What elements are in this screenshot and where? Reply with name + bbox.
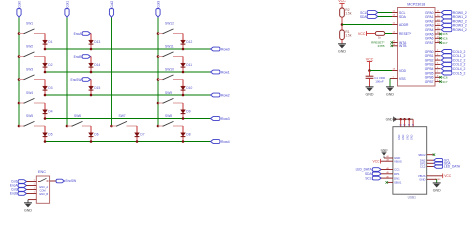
svg-text:GND: GND — [402, 134, 405, 140]
svg-text:SW9: SW9 — [165, 91, 172, 95]
svg-text:D5: D5 — [48, 133, 52, 137]
svg-text:COM: COM — [40, 189, 46, 193]
svg-text:D10: D10 — [186, 86, 192, 90]
svg-text:SW11: SW11 — [165, 44, 174, 48]
svg-text:SW12: SW12 — [165, 21, 174, 25]
svg-text:ADDR: ADDR — [399, 23, 409, 27]
svg-text:RESET*: RESET* — [399, 32, 412, 36]
svg-text:Col1: Col1 — [65, 1, 69, 8]
svg-text:D11: D11 — [186, 63, 192, 67]
svg-text:SDA: SDA — [399, 15, 407, 19]
svg-text:Col2: Col2 — [110, 1, 114, 8]
svg-text:ENC_A: ENC_A — [40, 185, 49, 189]
svg-text:SBU2: SBU2 — [418, 153, 426, 157]
svg-text:Row1: Row1 — [221, 70, 230, 74]
svg-text:Col3: Col3 — [156, 1, 160, 8]
svg-text:SBU1: SBU1 — [394, 181, 402, 185]
svg-text:INTB: INTB — [399, 44, 407, 48]
svg-text:LED_DATA: LED_DATA — [444, 165, 461, 169]
svg-text:1.5k: 1.5k — [345, 12, 351, 16]
svg-text:B1: B1 — [400, 125, 402, 127]
svg-text:COL5_2: COL5_2 — [453, 71, 466, 75]
svg-text:CC2: CC2 — [420, 165, 426, 169]
svg-text:GND: GND — [386, 117, 394, 121]
svg-text:NC7: NC7 — [442, 80, 448, 84]
svg-text:Row4: Row4 — [221, 140, 230, 144]
svg-text:VCC: VCC — [366, 57, 374, 61]
svg-text:D8: D8 — [186, 133, 190, 137]
svg-text:D3: D3 — [48, 86, 52, 90]
svg-text:D15: D15 — [94, 86, 100, 90]
svg-text:MCP23018: MCP23018 — [407, 3, 425, 7]
svg-text:Row0: Row0 — [221, 47, 230, 51]
svg-text:1.5k: 1.5k — [345, 34, 351, 38]
svg-text:SW3: SW3 — [26, 67, 33, 71]
svg-text:SW2: SW2 — [26, 44, 33, 48]
svg-text:EncB: EncB — [10, 192, 18, 196]
svg-text:A5: A5 — [387, 171, 389, 174]
svg-text:SW1: SW1 — [26, 21, 33, 25]
svg-text:A5: A5 — [387, 176, 389, 179]
svg-text:ENC_B: ENC_B — [40, 192, 49, 196]
svg-text:GND: GND — [433, 189, 441, 193]
svg-text:EncSW: EncSW — [71, 78, 83, 82]
svg-text:D2: D2 — [48, 63, 52, 67]
svg-text:A1: A1 — [387, 155, 389, 158]
svg-text:Row3: Row3 — [221, 117, 230, 121]
svg-text:GND: GND — [398, 134, 401, 140]
svg-text:SCL: SCL — [365, 176, 371, 180]
svg-text:A4: A4 — [387, 158, 389, 161]
svg-text:SW6: SW6 — [74, 114, 81, 118]
svg-text:ROW4_2: ROW4_2 — [453, 28, 467, 32]
svg-text:GND: GND — [386, 92, 394, 96]
svg-text:GND: GND — [338, 49, 346, 53]
svg-text:D1: D1 — [48, 40, 52, 44]
svg-text:D7: D7 — [140, 133, 144, 137]
svg-text:SW8: SW8 — [165, 114, 172, 118]
svg-text:SW5: SW5 — [26, 114, 33, 118]
svg-text:D14: D14 — [94, 63, 100, 67]
svg-text:GND: GND — [381, 148, 389, 152]
svg-text:GPA7: GPA7 — [425, 41, 434, 45]
svg-text:D13: D13 — [94, 40, 100, 44]
svg-text:D12: D12 — [186, 40, 192, 44]
svg-text:GND: GND — [366, 92, 374, 96]
svg-text:D9: D9 — [186, 110, 190, 114]
svg-text:SDA: SDA — [360, 15, 368, 19]
svg-text:INTB: INTB — [378, 44, 385, 48]
svg-text:A5: A5 — [387, 167, 389, 170]
svg-text:USB1: USB1 — [408, 196, 417, 200]
svg-text:B1: B1 — [412, 125, 414, 127]
svg-text:GPB7: GPB7 — [425, 80, 434, 84]
svg-text:SW4: SW4 — [26, 91, 33, 95]
svg-text:SW7: SW7 — [119, 114, 126, 118]
svg-text:VCC: VCC — [358, 32, 366, 36]
svg-text:SW10: SW10 — [165, 67, 174, 71]
svg-text:VCC: VCC — [338, 0, 346, 3]
svg-text:EncSW: EncSW — [66, 179, 77, 183]
svg-text:GND: GND — [419, 177, 425, 181]
svg-text:VSS: VSS — [399, 77, 406, 81]
svg-text:GND: GND — [24, 208, 32, 212]
svg-text:VCC: VCC — [444, 174, 452, 178]
svg-text:GND: GND — [411, 134, 414, 140]
svg-text:VCC: VCC — [373, 159, 381, 163]
svg-text:B1: B1 — [408, 125, 410, 127]
svg-text:D4: D4 — [48, 110, 52, 114]
svg-text:D6: D6 — [94, 133, 98, 137]
svg-text:EncA: EncA — [74, 32, 83, 36]
svg-text:VDD: VDD — [399, 69, 407, 73]
svg-text:VBUS: VBUS — [394, 160, 402, 164]
svg-text:ENC: ENC — [38, 170, 46, 174]
svg-text:NC7: NC7 — [442, 41, 448, 45]
svg-text:EncB: EncB — [74, 55, 83, 59]
svg-text:Row2: Row2 — [221, 93, 230, 97]
svg-text:GND: GND — [407, 134, 410, 140]
svg-text:B1: B1 — [403, 125, 405, 127]
svg-text:100nF: 100nF — [375, 79, 384, 83]
svg-text:Col0: Col0 — [17, 1, 21, 8]
